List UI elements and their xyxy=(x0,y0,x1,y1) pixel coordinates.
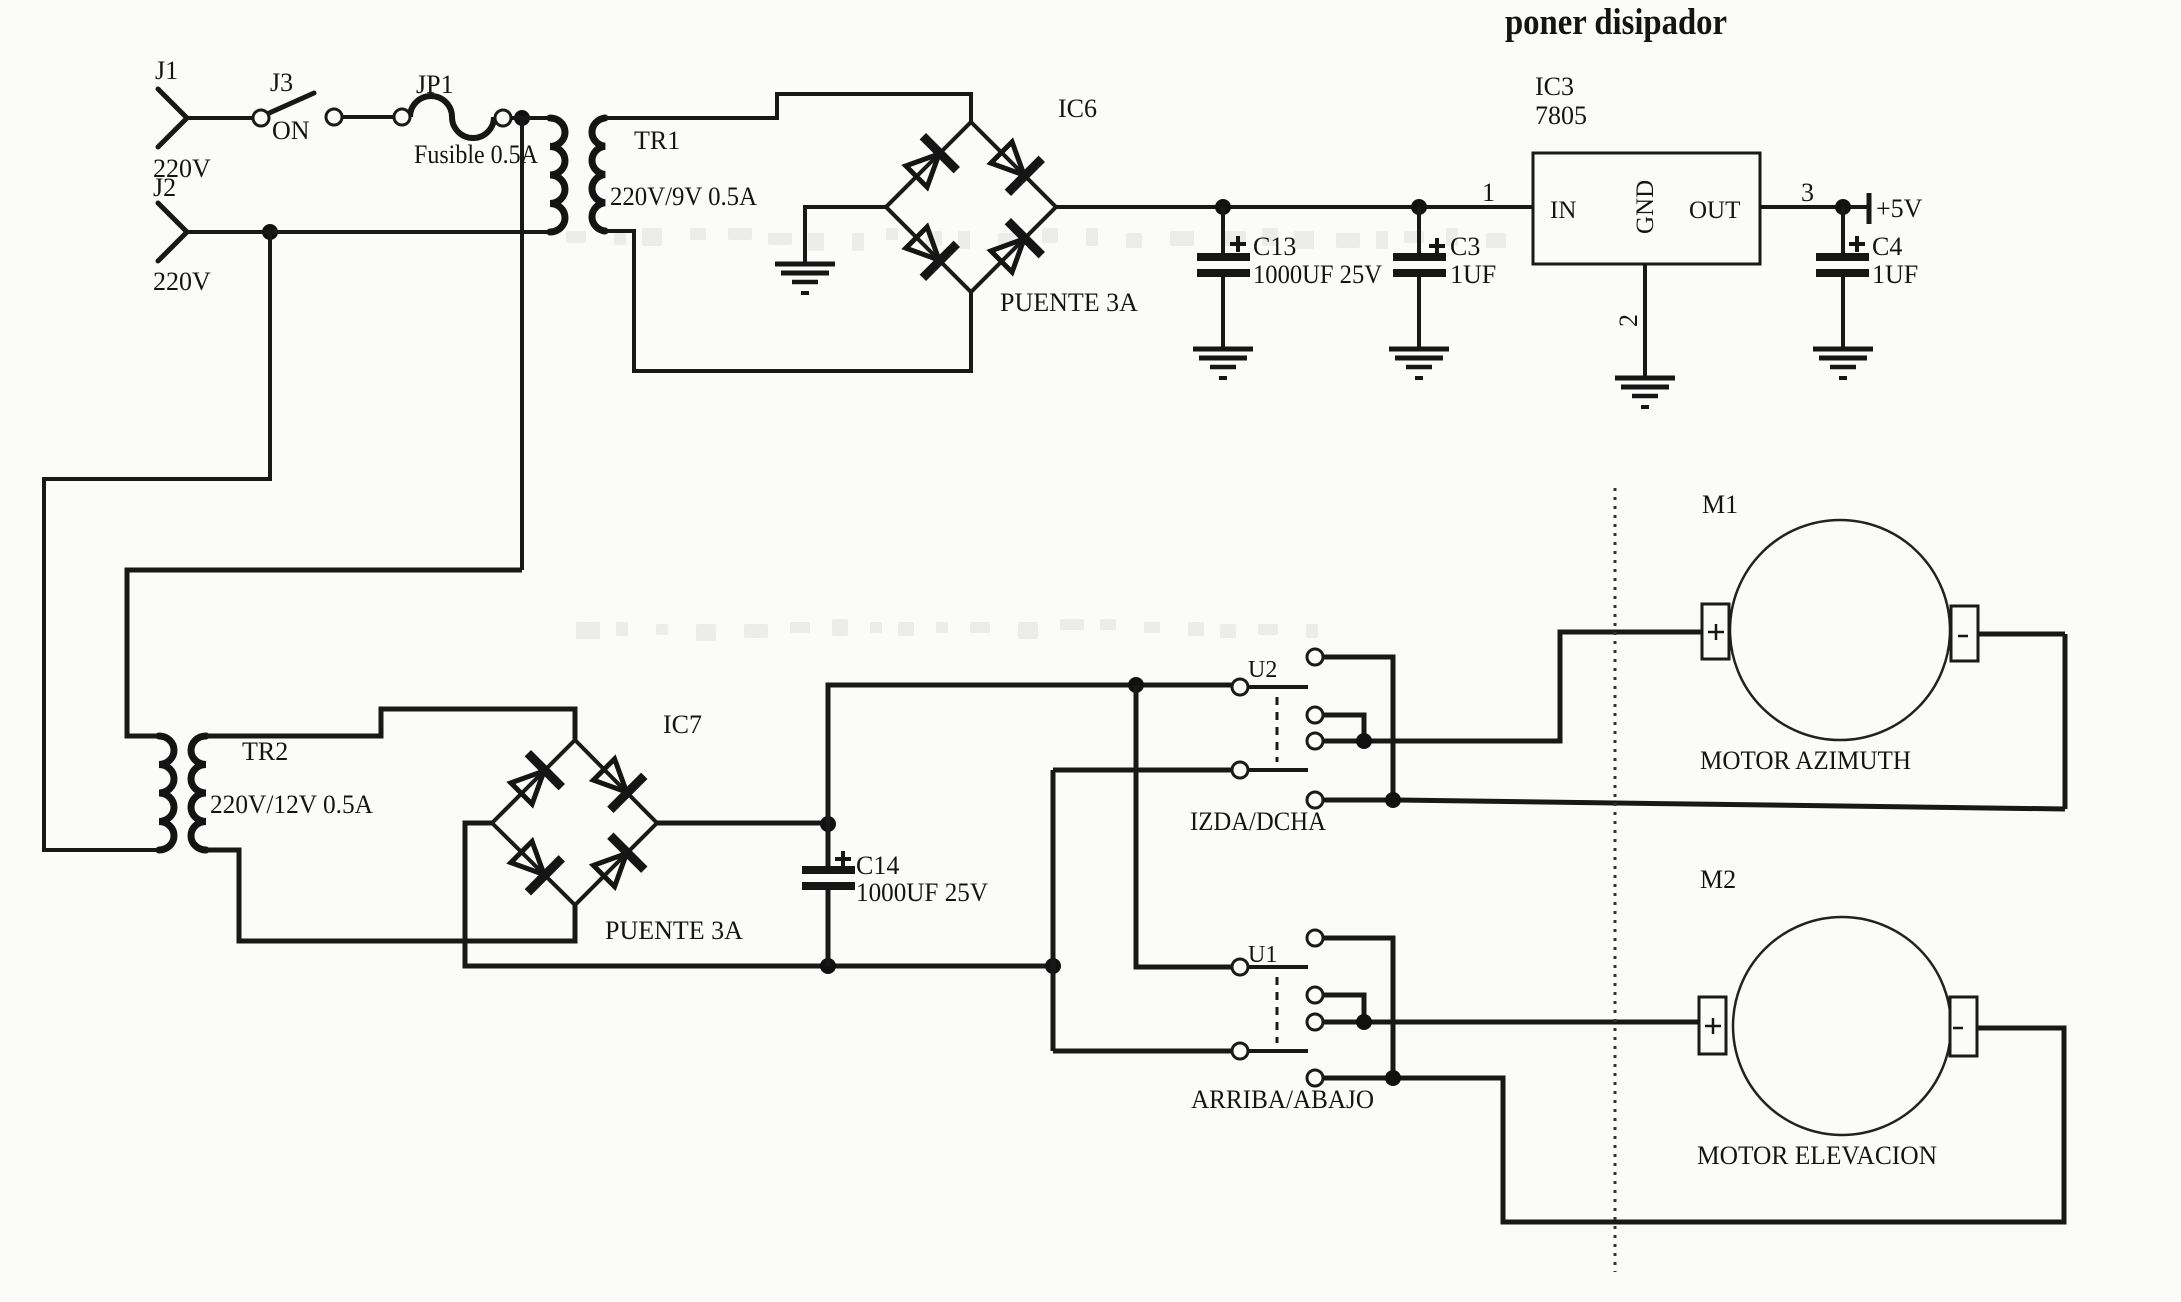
svg-text:IC3: IC3 xyxy=(1535,72,1574,101)
svg-text:OUT: OUT xyxy=(1689,197,1740,224)
svg-text:U2: U2 xyxy=(1248,657,1277,683)
svg-text:C13: C13 xyxy=(1253,232,1296,261)
svg-text:IC7: IC7 xyxy=(663,710,702,739)
svg-text:220V/9V 0.5A: 220V/9V 0.5A xyxy=(610,182,757,211)
svg-text:IC6: IC6 xyxy=(1058,94,1097,123)
svg-text:PUENTE 3A: PUENTE 3A xyxy=(605,916,743,945)
svg-text:1UF: 1UF xyxy=(1872,260,1918,289)
svg-text:TR1: TR1 xyxy=(634,126,680,155)
svg-text:1000UF 25V: 1000UF 25V xyxy=(856,878,988,907)
svg-text:poner disipador: poner disipador xyxy=(1505,2,1727,43)
svg-text:2: 2 xyxy=(1614,314,1643,327)
svg-text:C4: C4 xyxy=(1872,232,1902,261)
svg-text:220V/12V 0.5A: 220V/12V 0.5A xyxy=(210,790,373,819)
svg-text:7805: 7805 xyxy=(1535,101,1587,130)
svg-text:1000UF 25V: 1000UF 25V xyxy=(1253,260,1382,289)
svg-text:C3: C3 xyxy=(1450,232,1480,261)
svg-text:220V: 220V xyxy=(153,267,211,296)
svg-text:M2: M2 xyxy=(1700,865,1736,894)
svg-text:J1: J1 xyxy=(155,56,178,85)
svg-text:MOTOR AZIMUTH: MOTOR AZIMUTH xyxy=(1700,746,1911,775)
svg-text:+5V: +5V xyxy=(1876,194,1923,223)
svg-text:3: 3 xyxy=(1801,178,1814,207)
svg-text:Fusible 0.5A: Fusible 0.5A xyxy=(414,140,538,169)
svg-text:ARRIBA/ABAJO: ARRIBA/ABAJO xyxy=(1191,1085,1374,1114)
svg-text:MOTOR ELEVACION: MOTOR ELEVACION xyxy=(1697,1141,1937,1170)
svg-text:C14: C14 xyxy=(856,851,899,880)
svg-text:1: 1 xyxy=(1482,178,1495,207)
svg-text:M1: M1 xyxy=(1702,490,1738,519)
svg-text:TR2: TR2 xyxy=(242,737,288,766)
svg-text:GND: GND xyxy=(1632,180,1659,234)
svg-text:IZDA/DCHA: IZDA/DCHA xyxy=(1190,807,1326,836)
svg-text:J3: J3 xyxy=(270,68,293,97)
svg-text:IN: IN xyxy=(1550,197,1576,224)
svg-text:U1: U1 xyxy=(1248,942,1277,968)
svg-text:ON: ON xyxy=(272,116,310,145)
svg-text:JP1: JP1 xyxy=(416,70,454,99)
svg-text:J2: J2 xyxy=(153,173,176,202)
svg-text:1UF: 1UF xyxy=(1450,260,1496,289)
svg-text:PUENTE 3A: PUENTE 3A xyxy=(1000,288,1138,317)
